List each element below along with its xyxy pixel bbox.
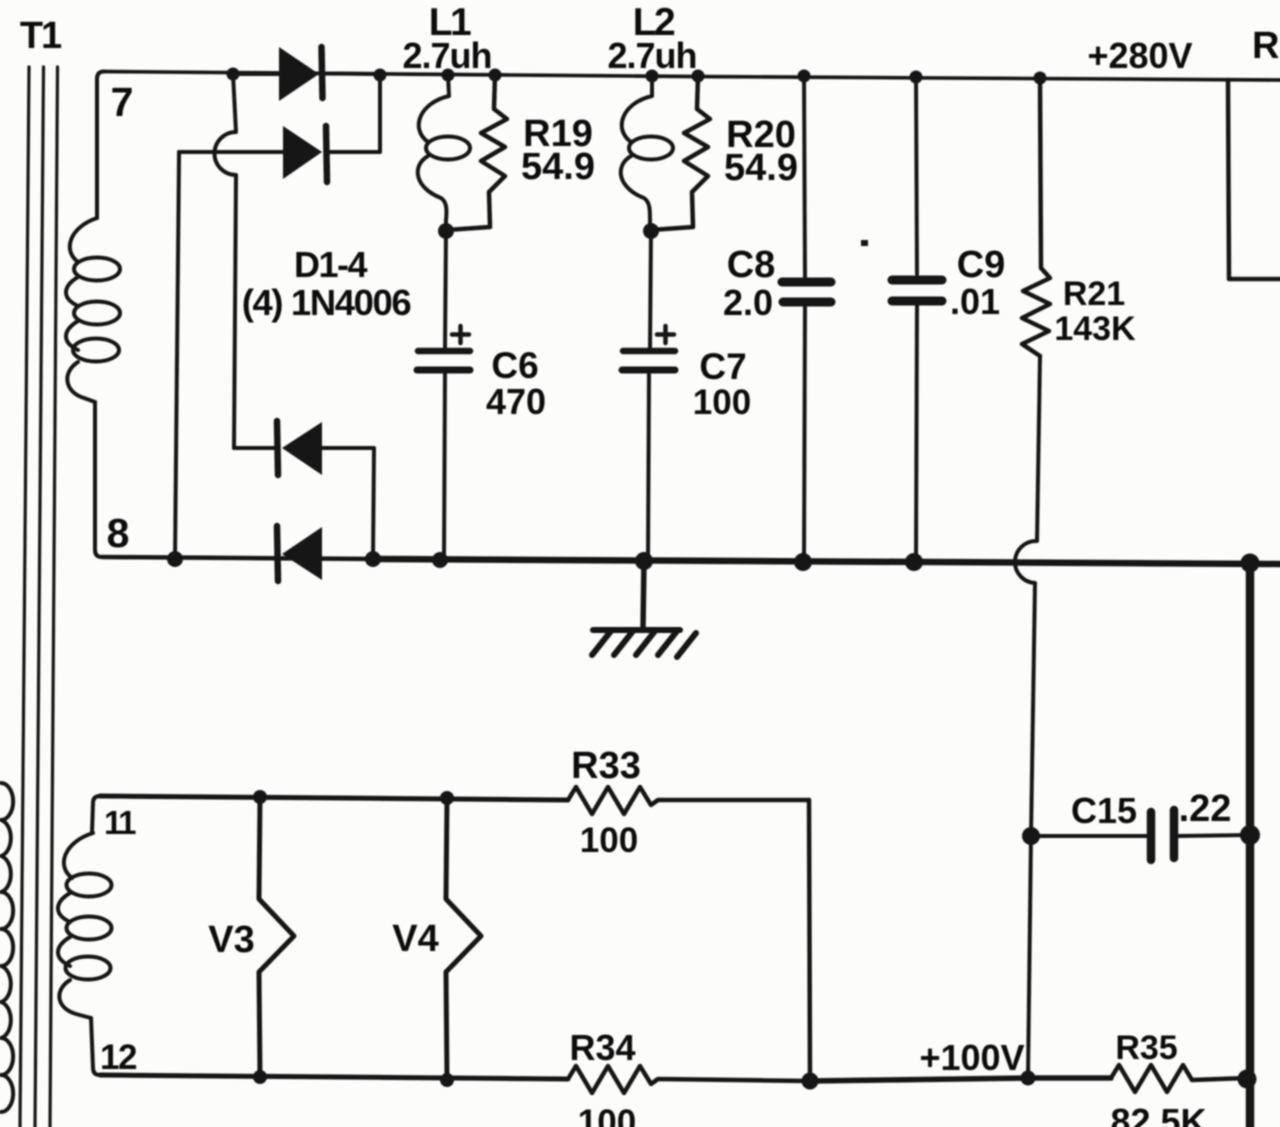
transformer T1 winding 11-12 [58,833,112,1018]
wire R21 down with hop over ground rail, to +100V rail [1015,356,1040,1078]
node (top heater rail / V4) [440,791,454,805]
wire ground rail (bottom of top section, right) [380,559,1280,564]
capacitor C15 [1031,810,1250,860]
wire ground rail (bottom of top section, left) [102,557,380,559]
svg-text:.01: .01 [950,281,1000,322]
inductor L1 [418,75,470,231]
svg-text:R21: R21 [1063,275,1125,313]
heater V3 [259,797,294,1077]
capacitor C7 [622,231,675,559]
svg-text:.22: .22 [1179,788,1232,830]
svg-text:R33: R33 [571,745,641,787]
svg-text:54.9: 54.9 [521,146,595,188]
ground [592,561,696,657]
scan speck artifact [861,240,868,246]
node (R35 / right bus) [1238,1070,1257,1089]
diode D3 [234,421,374,559]
svg-text:2.0: 2.0 [723,282,773,323]
svg-text:D1-4: D1-4 [294,244,368,285]
C7 polarity + [657,326,674,343]
svg-text:C7: C7 [699,346,746,387]
svg-text:2.7uh: 2.7uh [402,35,491,76]
svg-text:(4) 1N4006: (4) 1N4006 [242,282,411,323]
node (bottom heater rail / V3) [253,1070,267,1084]
node B (D1/D2 cathode junction) [374,69,387,82]
node (ground rail / right bus) [1241,554,1260,573]
node (top rail / L2) [646,70,659,83]
svg-text:V4: V4 [392,918,438,960]
svg-text:7: 7 [111,79,134,125]
wire right bus (vertical) [1246,563,1255,1127]
svg-text:T1: T1 [20,15,62,57]
node (C15 / right bus) [1240,825,1260,845]
svg-text:R35: R35 [1115,1029,1177,1067]
node (L2/R20 bottom junction) [643,223,659,239]
resistor R34 [568,1066,810,1093]
wire pin 12 rail (bottom of heater section) [100,1075,568,1079]
svg-text:R3: R3 [1252,25,1280,67]
diode D2 [179,74,380,182]
wire top rail +280V [104,72,1280,81]
node (R21 wire / C15 left) [1022,827,1040,845]
svg-text:54.9: 54.9 [724,147,798,189]
svg-text:2.7uh: 2.7uh [607,35,696,76]
node (top rail / C8) [798,70,811,83]
svg-text:100: 100 [693,383,751,422]
svg-text:11: 11 [104,804,136,841]
wire D2 anode down to ground rail [175,152,179,559]
node (C6 / ground rail) [432,552,448,568]
svg-text:12: 12 [100,1038,137,1077]
wire pin 12 lead [91,1018,100,1075]
transformer T1 secondary winding 7-8 [66,218,120,402]
resistor R20 [651,76,710,230]
node (D3 / ground rail) [365,551,381,567]
wire +100V rail [810,1078,1111,1081]
node (top rail / R20) [692,70,705,83]
svg-text:470: 470 [486,381,546,422]
transformer T1 core [20,67,58,1127]
heater V4 [446,798,481,1080]
wire branch to R3 (top right) [1228,80,1280,279]
svg-text:100: 100 [580,821,638,860]
node A (junction top rail / bridge) [227,68,240,81]
svg-text:82.5K: 82.5K [1110,1101,1206,1127]
svg-text:V3: V3 [208,919,254,961]
capacitor C8 [782,76,831,561]
wire pin 8 lead to bottom rail [95,402,102,557]
node (C9 / ground rail) [905,553,923,571]
wire R33 right side down to bottom rail [809,800,810,1081]
node (R33 branch / bottom heater rail) [802,1073,819,1090]
transformer T1 primary winding (left edge) [1,783,13,1112]
svg-text:+100V: +100V [919,1037,1024,1078]
svg-text:C9: C9 [957,244,1006,286]
wire pin 11 rail (top of heater section) [92,796,100,833]
wire pin 7 lead from top rail [97,72,104,219]
resistor R21 [1022,78,1050,356]
node (top rail / L1) [442,69,455,82]
node (C8 / ground rail) [794,553,812,571]
svg-text:R34: R34 [569,1027,635,1068]
diode D4 [277,526,322,581]
diode D1 [233,47,380,101]
svg-text:143K: 143K [1054,310,1136,348]
node (top rail / R21) [1034,72,1047,85]
node (L1/R19 bottom junction) [438,223,454,239]
resistor R35 [1111,1065,1247,1092]
svg-text:C15: C15 [1071,790,1137,831]
resistor R19 [447,75,507,230]
svg-text:8: 8 [107,510,130,556]
svg-text:+280V: +280V [1087,35,1192,76]
node (top rail / R19) [489,69,502,82]
inductor L2 [621,76,673,231]
node (bottom heater rail / V4) [440,1073,454,1087]
node (C7 / ground rail junction) [635,552,653,570]
resistor R33 [568,787,809,814]
svg-text:C8: C8 [727,244,776,286]
capacitor C9 [892,76,942,561]
node (top rail / C9) [910,71,923,84]
capacitor C6 [417,231,470,559]
C6 polarity + [452,326,469,343]
svg-text:100: 100 [578,1103,636,1127]
node (D2 anode / ground rail) [167,551,183,567]
svg-text:C6: C6 [491,345,538,386]
wire node A down to D3 with hop over D2 wire [214,74,236,448]
node (+100V rail / R21 wire) [1021,1071,1036,1086]
node (top heater rail / V3) [253,790,267,804]
